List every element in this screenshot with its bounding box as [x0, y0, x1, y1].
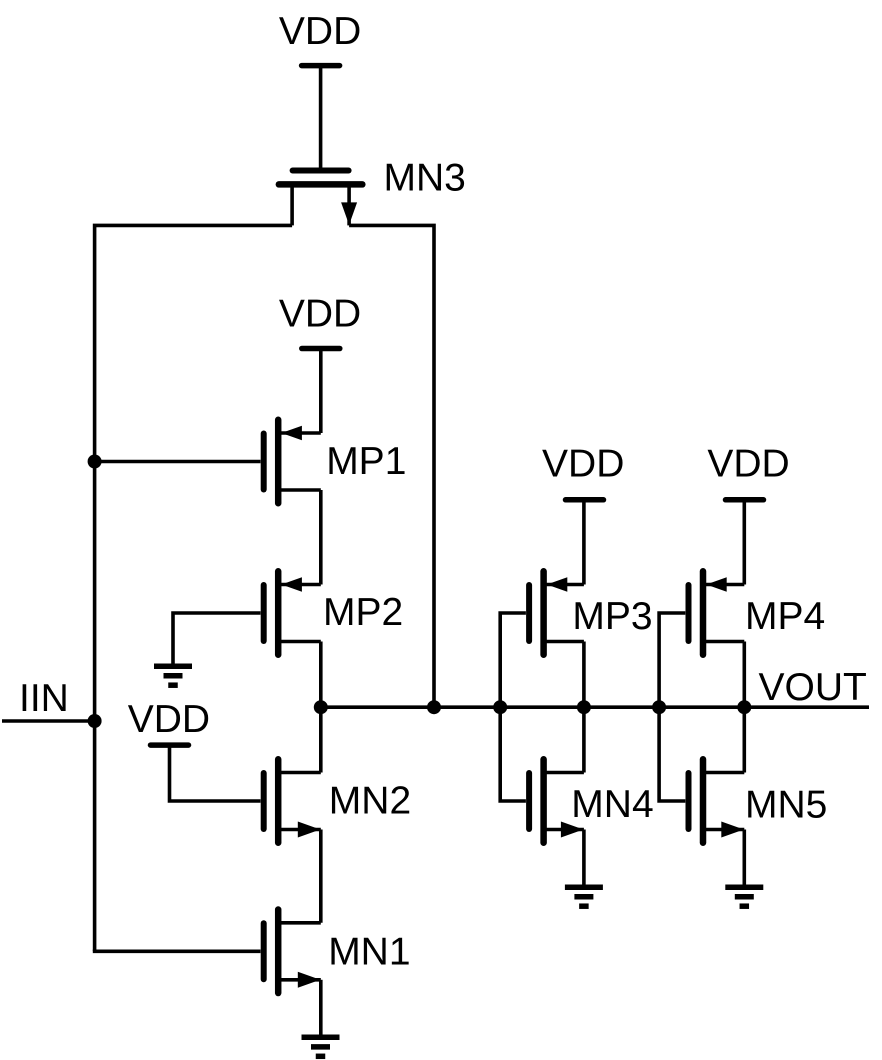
wire VOUT output: [744, 705, 869, 709]
svg-text:MP1: MP1: [326, 440, 406, 483]
junction dot: VOUT node: [737, 700, 751, 714]
transistor MN4 (NMOS): [526, 773, 532, 829]
junction dot: inverter-1 output on node row: [577, 700, 591, 714]
ground symbol (MP2 gate): [154, 663, 192, 669]
svg-text:MP3: MP3: [572, 595, 652, 638]
junction dot: node row at MP2/MN2 drains: [314, 700, 328, 714]
power VDD supply (for MP1): [302, 346, 340, 352]
transistor MP1 (PMOS): [261, 434, 267, 490]
wire MN2 source to MN1 drain: [319, 830, 323, 923]
wire MP1 gate to left rail: [95, 460, 261, 464]
wire inverter-2 gates to node row: [659, 613, 685, 801]
svg-text:VOUT: VOUT: [759, 666, 867, 709]
wire MN1 gate from left rail: [93, 949, 261, 953]
wire MN2 drain up to node row: [319, 707, 323, 772]
svg-text:IIN: IIN: [19, 677, 69, 720]
junction dot: IIN on left rail: [88, 714, 102, 728]
junction dot: inverter-2 gate tap on node row: [652, 700, 666, 714]
transistor MN5 (NMOS): [686, 773, 692, 829]
svg-text:VDD: VDD: [707, 443, 789, 486]
wire MN5 source to ground: [742, 830, 746, 888]
wire MP2 drain down to node row: [319, 642, 323, 708]
transistor MN1 (NMOS): [261, 923, 267, 979]
wire MN3 drain to left rail and left rail down to MN1 gate: [95, 225, 293, 951]
power VDD supply (top, for MN3): [302, 63, 340, 69]
wire VDD to MP1 source: [319, 349, 323, 434]
svg-text:VDD: VDD: [279, 293, 361, 336]
junction dot: MP1 gate on left rail: [88, 455, 102, 469]
transistor MP4 (PMOS): [686, 585, 692, 641]
junction dot: node row at MN3 source branch: [427, 700, 441, 714]
wire VDD to MP4 source: [742, 500, 746, 585]
wire MP1 drain to MP2 source: [319, 490, 323, 585]
wire main node row (MP2 drain to inverter outputs): [321, 705, 745, 709]
svg-text:MN3: MN3: [384, 157, 466, 200]
wire MP3 drain / MN4 drain vertical: [582, 642, 586, 773]
ground symbol (MN4 source): [565, 884, 603, 890]
power VDD supply (for MP4): [726, 497, 764, 503]
svg-text:MN5: MN5: [745, 783, 827, 826]
wire MN1 source to ground: [319, 980, 323, 1038]
wire MN3 source right then down to node row: [349, 225, 434, 707]
svg-text:MP4: MP4: [745, 595, 825, 638]
wire VDD to MP3 source: [582, 500, 586, 585]
wire MN4 source to ground: [582, 830, 586, 888]
svg-text:MN1: MN1: [328, 930, 410, 973]
wire MP4 drain / MN5 drain vertical: [742, 642, 746, 773]
power VDD supply (for MP3): [566, 497, 604, 503]
transistor MN3 (NMOS, rotated, gate up / source arrow down): [293, 168, 349, 174]
power VDD supply (for MN2 gate): [151, 742, 189, 748]
transistor MP2 (PMOS): [261, 585, 267, 641]
wire VDD to MN2 gate: [170, 745, 261, 801]
ground symbol (MN1 source): [302, 1035, 340, 1041]
wire inverter-1 gates to node row: [500, 613, 526, 801]
ground symbol (MN5 source): [725, 884, 763, 890]
transistor MN2 (NMOS): [261, 773, 267, 829]
svg-text:MN4: MN4: [571, 783, 653, 826]
junction dot: inverter-1 gate tap on node row: [493, 700, 507, 714]
svg-text:MN2: MN2: [329, 779, 411, 822]
svg-text:MP2: MP2: [323, 591, 403, 634]
wire MP2 gate to ground: [173, 613, 261, 666]
svg-text:VDD: VDD: [279, 10, 361, 53]
transistor MP3 (PMOS): [526, 585, 532, 641]
svg-text:VDD: VDD: [542, 443, 624, 486]
svg-text:VDD: VDD: [128, 698, 210, 741]
wire IIN input: [2, 719, 95, 723]
wire VDD to MN3 gate: [319, 66, 323, 169]
